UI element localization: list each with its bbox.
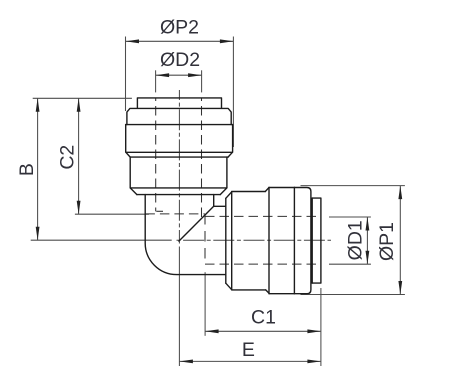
dimension C1 line xyxy=(205,330,321,332)
arrow E right xyxy=(307,360,321,364)
arrow B bottom xyxy=(36,227,40,241)
body (vertical port) xyxy=(126,125,233,153)
arrow ØD1 bottom xyxy=(366,251,370,265)
dimension B/C2 top extension line xyxy=(33,97,132,99)
body (horizontal port) xyxy=(269,188,294,294)
svg-text:C2: C2 xyxy=(56,145,78,170)
elbow body right edge xyxy=(213,195,215,207)
dimension C2 line xyxy=(78,98,80,214)
body chamfer left xyxy=(126,153,130,157)
dimension ØD2 line xyxy=(156,74,202,76)
sleeve chamfer top-left xyxy=(226,192,232,198)
part outline xyxy=(126,98,321,294)
sleeve chamfer bottom-left xyxy=(226,283,232,290)
arrow E left xyxy=(179,360,193,364)
dimension ØP2 extension line right xyxy=(232,37,234,148)
svg-text:E: E xyxy=(242,339,255,361)
dimension ØP2 line xyxy=(126,40,234,42)
dimension C2 bottom extension line xyxy=(75,213,149,215)
svg-text:B: B xyxy=(16,163,38,176)
horizontal centerline (dash-dot) xyxy=(177,239,332,241)
dimension ØP1 line xyxy=(399,186,401,295)
hidden bore left (vertical port) xyxy=(155,98,157,211)
svg-text:ØD1: ØD1 xyxy=(345,220,367,260)
dimension B line xyxy=(37,98,39,240)
svg-text:C1: C1 xyxy=(251,307,276,329)
barrel chamfer right xyxy=(220,188,227,195)
sleeve (horizontal port) xyxy=(232,192,266,290)
dimension ØP2 extension line left xyxy=(31,37,405,367)
hidden tube stop (vertical dashed) xyxy=(204,214,206,264)
sleeve chamfer edge line xyxy=(231,192,233,290)
dimension ØD1 top extension line xyxy=(329,216,371,218)
hidden bore corner step dash xyxy=(156,210,163,212)
arrow C1 right xyxy=(307,329,321,333)
arrow C1 left xyxy=(205,329,219,333)
sleeve chamfer top-right xyxy=(265,188,269,192)
arrow C2 bottom xyxy=(77,201,81,215)
collet cap ring (vertical port) xyxy=(127,108,231,124)
arrow ØP2 left xyxy=(126,39,140,43)
dimension ØD1 line xyxy=(366,217,368,264)
dimension C1 left extension line xyxy=(204,272,206,336)
vertical centerline (dash-dot) xyxy=(178,90,180,244)
barrel chamfer edge line xyxy=(137,194,220,196)
svg-text:ØP1: ØP1 xyxy=(376,222,398,261)
horizontal barrel left face xyxy=(225,198,227,283)
body joint line (horizontal port) xyxy=(293,188,295,294)
chamfer edge line (horizontal) xyxy=(268,188,270,294)
hidden socket bore bottom (horizontal port) xyxy=(205,263,319,265)
hidden socket bore top (horizontal port) xyxy=(205,215,319,217)
dimension E line xyxy=(179,360,321,362)
dimension ØD2 extension line left xyxy=(155,70,157,92)
arrow ØD2 right xyxy=(188,73,202,77)
arrow ØP1 bottom xyxy=(398,281,402,295)
arrow B top xyxy=(36,98,40,112)
hidden bore right (vertical port) xyxy=(201,98,203,218)
arrow ØD1 top xyxy=(366,217,370,231)
elbow body left edge and bottom arc xyxy=(145,195,226,275)
arrow ØP2 right xyxy=(220,39,234,43)
dimension ØP1 bottom extension line xyxy=(301,294,405,296)
collet cap left joint (horizontal port) xyxy=(311,198,313,283)
arrow ØP1 top xyxy=(398,186,402,200)
arrowheads xyxy=(36,39,403,363)
dimension ØD1 bottom extension line xyxy=(329,263,371,265)
dimension B bottom extension / horizontal centerline solid part xyxy=(31,239,172,241)
svg-text:ØP2: ØP2 xyxy=(160,17,199,39)
dimension E left extension (vertical centerline solid part) xyxy=(178,247,180,367)
body chamfer right xyxy=(228,153,232,157)
elbow shoulder xyxy=(214,205,226,207)
collet cap ring (horizontal port) xyxy=(294,188,311,294)
arrow ØD2 left xyxy=(156,73,170,77)
svg-text:ØD2: ØD2 xyxy=(160,49,200,71)
dimension ØD2 extension line right xyxy=(201,70,203,92)
lower barrel (vertical port) xyxy=(130,157,227,188)
arrow C2 top xyxy=(77,98,81,112)
chamfer edge line xyxy=(130,156,228,158)
collet cap (horizontal port) xyxy=(312,198,321,283)
elbow miter line xyxy=(179,206,214,241)
dimension C1/E right extension line xyxy=(320,288,322,366)
dimension ØP1 top extension line xyxy=(301,185,405,187)
hidden bore lines (dashed) xyxy=(145,98,318,264)
barrel chamfer left xyxy=(130,188,137,195)
body joint line (vertical port) xyxy=(126,124,233,126)
collet cap (vertical port) xyxy=(137,98,221,108)
sleeve chamfer bottom-right xyxy=(266,290,270,294)
hidden elbow bore top (horizontal) xyxy=(145,213,205,215)
